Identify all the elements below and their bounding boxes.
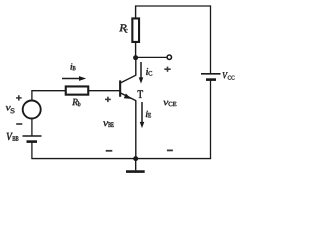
label iC [146, 68, 152, 75]
label Rb [72, 99, 80, 106]
resistor Rb [66, 86, 89, 94]
label vS [6, 106, 15, 113]
wire: top rail to Rc [135, 5, 137, 18]
node: bottom junction dot [133, 156, 138, 161]
ground [135, 159, 137, 171]
wire: emitter down to bottom node [135, 100, 137, 158]
label vCE [163, 101, 176, 106]
wire: Rb right to transistor base [89, 90, 120, 92]
minus sign of vS [16, 123, 22, 125]
label Rc [119, 24, 127, 32]
wire: top rail [136, 5, 211, 7]
battery VCC [201, 73, 221, 75]
resistor Rc [132, 18, 139, 42]
label iE [146, 111, 151, 118]
arrow iE [141, 102, 143, 123]
label T [138, 90, 144, 98]
node: collector junction dot [133, 55, 138, 60]
wire: battery VBB to bottom rail [31, 142, 33, 159]
transistor T: base bar [119, 80, 121, 96]
plus sign of vS [16, 95, 22, 100]
transistor T: emitter lead with arrowhead [121, 93, 136, 101]
wire: vS bottom to battery VBB [31, 118, 33, 136]
plus sign of vCE [164, 67, 170, 72]
wire: right rail upper [210, 5, 212, 73]
battery VBB [23, 135, 42, 137]
arrow iC [140, 62, 142, 79]
open terminal (output) [167, 55, 171, 59]
wire: collector node to output terminal [136, 56, 167, 58]
label vBE [103, 121, 113, 127]
minus sign of vBE [106, 150, 113, 152]
minus sign of vCE [167, 149, 173, 151]
label VCC [223, 72, 235, 79]
wire: vS top up and right to Rb [32, 91, 66, 101]
wire: right rail lower [210, 80, 212, 159]
wire: Rc to collector node [135, 43, 137, 58]
voltage source vS [23, 101, 41, 119]
transistor T: collector lead [121, 58, 136, 83]
arrow iB [62, 78, 80, 80]
label VBB [7, 133, 19, 141]
label iB [70, 63, 75, 70]
wire: bottom rail [31, 158, 211, 160]
plus sign of vBE [105, 97, 111, 102]
